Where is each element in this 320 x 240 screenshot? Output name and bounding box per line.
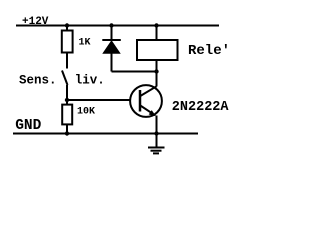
- wire from switch bottom to node B: [66, 85, 68, 100]
- wire node B to Q1 base: [67, 99, 140, 101]
- svg-text:10K: 10K: [77, 107, 95, 118]
- junction dot relay top on +12V rail: [154, 23, 158, 27]
- svg-text:1K: 1K: [79, 38, 91, 49]
- svg-text:Sens.: Sens.: [19, 74, 57, 88]
- wire GND rail: [13, 133, 198, 135]
- node +12V label: [22, 16, 49, 28]
- ground bar 2: [151, 150, 162, 152]
- wire GND rail to earth ground: [156, 134, 158, 148]
- svg-text:liv.: liv.: [75, 74, 105, 88]
- transistor Q1 emitter diagonal with arrow: [140, 106, 156, 117]
- wire from +12V rail to R1 top: [66, 26, 68, 31]
- resistor R1 1K: [62, 31, 73, 53]
- junction dot collector node: [154, 69, 158, 73]
- wire Q1 emitter to GND rail: [156, 116, 158, 134]
- wire from D1 anode to collector node: [112, 71, 157, 73]
- junction dot R2 bottom on GND rail: [65, 131, 69, 135]
- ground bar 3: [153, 152, 159, 154]
- wire from R1 bottom to switch top terminal: [66, 53, 68, 69]
- transistor Q1 collector diagonal: [140, 86, 156, 96]
- svg-text:Rele': Rele': [188, 43, 230, 59]
- node GND label: [15, 118, 41, 134]
- junction dot node B: [65, 98, 69, 102]
- value label 1K: [79, 38, 91, 49]
- wire from +12V rail to relay coil top: [156, 26, 158, 40]
- diode D1 triangle: [103, 41, 120, 53]
- svg-text:2N2222A: 2N2222A: [172, 100, 230, 115]
- wire from R2 bottom to GND rail: [66, 125, 68, 134]
- transistor Q1 label 2N2222A: [172, 100, 230, 115]
- resistor R2 10K: [62, 105, 72, 125]
- transistor Q1 circle: [130, 85, 162, 117]
- wire from D1 anode down: [111, 53, 113, 72]
- junction dot diode D1 cathode on +12V rail: [109, 23, 113, 27]
- switch label Sens. liv.: [19, 74, 105, 88]
- wire +12V rail: [16, 25, 219, 27]
- svg-text:GND: GND: [15, 118, 41, 134]
- wire from relay coil bottom to collector node: [156, 61, 158, 72]
- junction dot at 1K top on +12V rail: [65, 23, 69, 27]
- relay K1 coil box: [137, 40, 178, 60]
- diode D1 cathode bar: [102, 39, 121, 41]
- ground bar 1: [148, 147, 165, 149]
- wire collector node to Q1 collector: [156, 72, 158, 87]
- switch SW1 Sens. liv. open blade: [62, 71, 68, 86]
- transistor Q1 base bar: [139, 90, 142, 112]
- wire from +12V rail to D1 cathode bar: [111, 26, 113, 41]
- value label 10K: [77, 107, 95, 118]
- junction dot emitter on GND rail: [154, 131, 158, 135]
- relay label Rele': [188, 43, 230, 59]
- svg-text:+12V: +12V: [22, 16, 49, 28]
- wire node B to R2 top: [66, 100, 68, 104]
